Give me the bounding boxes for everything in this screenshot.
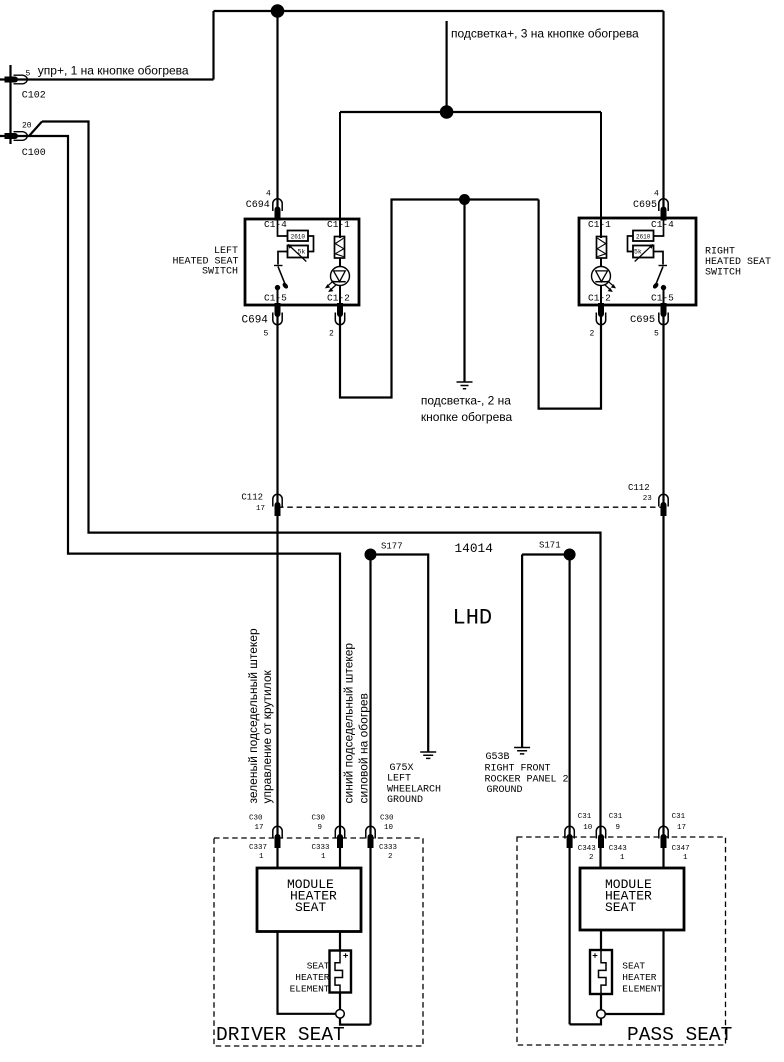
- svg-text:PASS SEAT: PASS SEAT: [627, 1024, 732, 1046]
- svg-text:LHD: LHD: [453, 606, 493, 631]
- wire green control run: [42, 122, 601, 869]
- connector C112 pin 17: [273, 494, 282, 516]
- node illumination ground junction: [459, 194, 470, 205]
- svg-text:C30: C30: [312, 815, 326, 823]
- svg-text:ROCKER PANEL 2: ROCKER PANEL 2: [485, 774, 569, 785]
- wire pass seat element return: [570, 1018, 601, 1024]
- svg-text:C343: C343: [609, 845, 628, 853]
- svg-text:подсветка+, 3 на кнопке обогре: подсветка+, 3 на кнопке обогрева: [451, 27, 639, 41]
- svg-text:4: 4: [654, 190, 659, 199]
- wire top horizontal bus: [214, 10, 664, 12]
- right heated seat switch box U2: [579, 218, 696, 305]
- ground G75X: [420, 752, 436, 758]
- switch blade tip: [281, 282, 289, 290]
- wire left switch output C1-5 down to driver module: [276, 305, 278, 868]
- connector C30 pin 17 / C337 pin 1: [273, 826, 282, 848]
- svg-text:S171: S171: [539, 541, 561, 551]
- svg-text:C1-5: C1-5: [651, 292, 674, 303]
- connector C112 pin 23: [659, 494, 668, 516]
- svg-text:5: 5: [654, 330, 659, 339]
- svg-text:GROUND: GROUND: [387, 795, 423, 806]
- wire harness stub at C102/C100: [9, 65, 11, 144]
- ground illumination (button backlight): [457, 382, 473, 389]
- svg-text:C694: C694: [242, 315, 269, 327]
- resistor 2610: [288, 231, 309, 242]
- svg-text:G75X: G75X: [390, 763, 414, 774]
- svg-text:C1-4: C1-4: [651, 219, 674, 230]
- svg-text:ELEMENT: ELEMENT: [290, 984, 330, 995]
- svg-text:C100: C100: [22, 148, 46, 159]
- svg-text:5: 5: [264, 330, 269, 339]
- svg-text:9: 9: [616, 824, 621, 832]
- pass module heater seat box: [580, 868, 684, 930]
- svg-text:G53B: G53B: [486, 752, 510, 763]
- wire left C1-2 to illumination ground: [340, 200, 539, 398]
- svg-text:2610: 2610: [636, 233, 651, 240]
- LED arrow 1: [328, 281, 333, 286]
- svg-text:C343: C343: [578, 845, 597, 853]
- svg-text:2: 2: [329, 330, 334, 339]
- svg-text:SEAT: SEAT: [605, 900, 636, 915]
- svg-text:C1-2: C1-2: [588, 292, 611, 303]
- svg-text:17: 17: [255, 824, 264, 832]
- wire podsvetka+ vertical: [446, 21, 448, 112]
- svg-text:5k: 5k: [298, 249, 306, 256]
- svg-text:WHEELARCH: WHEELARCH: [387, 784, 441, 795]
- LED cathode bar: [333, 281, 345, 283]
- svg-text:5k: 5k: [634, 249, 642, 256]
- svg-text:зеленый подседельный штекер: зеленый подседельный штекер: [246, 628, 260, 803]
- wire C100 pin20 diagonal: [29, 122, 42, 137]
- svg-text:RIGHT FRONT: RIGHT FRONT: [485, 764, 551, 775]
- resistor 5k variable: [288, 246, 309, 258]
- connector C695 pin 5: [659, 303, 668, 325]
- svg-text:1: 1: [620, 854, 625, 862]
- svg-text:1: 1: [683, 854, 688, 862]
- svg-text:C1-1: C1-1: [588, 219, 611, 230]
- svg-text:SWITCH: SWITCH: [705, 268, 741, 279]
- connector C694 pin 4: [273, 199, 282, 221]
- svg-text:HEATER: HEATER: [622, 972, 657, 983]
- wire pass module to heater element: [600, 930, 602, 1010]
- wire contact to C1-5: [277, 288, 279, 305]
- wire driver module left pin to seat joint: [278, 932, 336, 1014]
- switch fixed contact: [275, 285, 280, 290]
- svg-text:подсветка-, 2 на: подсветка-, 2 на: [421, 394, 511, 408]
- right switch internals (mirrored): [592, 112, 668, 305]
- wire coil to LED: [339, 258, 341, 267]
- left heated seat switch box U1: [245, 219, 359, 305]
- svg-text:2: 2: [589, 854, 594, 862]
- svg-text:1: 1: [321, 853, 326, 861]
- svg-text:C1-4: C1-4: [264, 219, 287, 230]
- wire upr+ from C102: [0, 78, 214, 80]
- pass seat heater element: [590, 950, 612, 994]
- driver seat joint circle: [336, 1010, 345, 1019]
- connector right switch pin 2: [596, 303, 605, 325]
- svg-text:23: 23: [643, 495, 653, 503]
- wire left drop from top bus: [212, 11, 214, 80]
- svg-text:5: 5: [26, 70, 31, 79]
- left switch internals: [274, 112, 350, 305]
- driver seat dashed enclosure: [214, 838, 423, 1046]
- wire S177 to ground G75X: [371, 555, 429, 753]
- svg-text:DRIVER SEAT: DRIVER SEAT: [216, 1024, 345, 1046]
- wire illumination ground drop: [463, 200, 465, 383]
- svg-text:C102: C102: [22, 91, 46, 102]
- connector C31 pin 17 / C347 pin 1: [659, 826, 668, 848]
- svg-text:C30: C30: [380, 815, 394, 823]
- wire S171 power drop to pass seat: [568, 555, 570, 1025]
- svg-text:управление от крутилок: управление от крутилок: [260, 670, 274, 804]
- connector C31 pin 10 / C343 pin 2: [565, 826, 574, 848]
- lamp coil body: [335, 237, 345, 259]
- svg-text:C333: C333: [312, 844, 331, 852]
- wire illumination bus C1-1 to C1-1: [340, 111, 601, 113]
- svg-text:S177: S177: [381, 542, 403, 552]
- node podsvetka+ junction: [440, 105, 454, 119]
- connector C31 pin 9 / C343 pin 1: [596, 826, 605, 848]
- wire S177 power drop to driver seat: [369, 555, 371, 1025]
- svg-text:C30: C30: [249, 815, 263, 823]
- svg-text:кнопке обогрева: кнопке обогрева: [421, 410, 513, 424]
- svg-text:2610: 2610: [291, 233, 306, 240]
- svg-text:9: 9: [318, 824, 323, 832]
- svg-text:10: 10: [583, 824, 593, 832]
- svg-text:C347: C347: [672, 845, 690, 853]
- pass seat dashed enclosure: [517, 837, 726, 1045]
- connector C30 pin 10 / C333 pin 2: [366, 826, 375, 848]
- svg-text:14014: 14014: [455, 541, 494, 556]
- svg-text:синий подседельный штекер: синий подседельный штекер: [342, 643, 356, 804]
- pass seat joint circle: [597, 1010, 606, 1019]
- wire right switch C1-4 drop: [662, 11, 664, 218]
- svg-text:HEATER: HEATER: [295, 972, 330, 983]
- dashed bulkhead line C112: [278, 506, 664, 508]
- svg-text:20: 20: [22, 122, 32, 131]
- wire driver seat element return: [340, 1018, 371, 1025]
- connector C100: [5, 132, 28, 141]
- switch blade: [278, 267, 285, 285]
- wire S171 to ground G53B: [522, 555, 570, 748]
- svg-text:4: 4: [266, 190, 271, 199]
- node S171 splice: [564, 549, 576, 561]
- svg-text:C1-1: C1-1: [327, 219, 350, 230]
- wire 2610 to 5k: [308, 236, 314, 252]
- svg-text:ELEMENT: ELEMENT: [622, 984, 662, 995]
- svg-text:C333: C333: [379, 844, 398, 852]
- svg-text:C695: C695: [633, 200, 657, 211]
- wire C1-4 to resistor 2610: [278, 219, 288, 236]
- wire driver module to heater element: [339, 932, 341, 1010]
- driver module heater seat box: [257, 868, 361, 932]
- svg-text:C112: C112: [628, 483, 650, 493]
- svg-text:1: 1: [259, 853, 264, 861]
- svg-text:SWITCH: SWITCH: [202, 267, 238, 278]
- svg-text:10: 10: [384, 824, 394, 832]
- wire left switch C1-4 drop: [276, 11, 278, 219]
- svg-text:C1-2: C1-2: [327, 292, 350, 303]
- arrow of variable resistor: [291, 247, 307, 262]
- connector left switch pin 2: [335, 303, 344, 325]
- svg-text:C695: C695: [630, 314, 655, 326]
- svg-text:17: 17: [256, 505, 265, 513]
- svg-text:C1-5: C1-5: [264, 292, 287, 303]
- svg-text:17: 17: [677, 824, 686, 832]
- svg-text:C337: C337: [249, 844, 267, 852]
- connector C102: [5, 75, 28, 84]
- LED arrow 2: [332, 284, 337, 289]
- svg-text:HEATED SEAT: HEATED SEAT: [705, 257, 771, 268]
- wire blue power run: [0, 136, 340, 868]
- svg-text:C31: C31: [609, 813, 623, 821]
- node S177 splice: [365, 549, 377, 561]
- connector C30 pin 9 / C333 pin 1: [335, 826, 344, 848]
- svg-text:2: 2: [388, 853, 393, 861]
- node top junction: [271, 4, 285, 18]
- svg-text:C31: C31: [578, 813, 592, 821]
- svg-text:2: 2: [590, 330, 595, 339]
- svg-text:упр+, 1 на кнопке обогрева: упр+, 1 на кнопке обогрева: [38, 64, 189, 78]
- svg-text:C694: C694: [246, 200, 270, 211]
- wire LED to C1-2: [339, 285, 341, 305]
- wire right switch output C1-5 down to pass module: [662, 305, 664, 868]
- svg-text:SEAT: SEAT: [295, 900, 326, 915]
- ground G53B: [514, 748, 530, 754]
- svg-text:GROUND: GROUND: [487, 785, 523, 796]
- LED triangle: [334, 271, 346, 282]
- LED circle: [331, 267, 350, 286]
- svg-text:C31: C31: [672, 813, 686, 821]
- wire pass module right pin to seat joint: [605, 930, 663, 1014]
- connector C695 pin 4: [659, 199, 668, 221]
- svg-text:RIGHT: RIGHT: [705, 247, 735, 258]
- wire C1-1 into coil: [339, 112, 341, 238]
- svg-text:SEAT: SEAT: [307, 961, 330, 972]
- svg-text:LEFT: LEFT: [387, 774, 411, 785]
- driver seat heater element: [330, 951, 352, 993]
- svg-text:C112: C112: [241, 492, 263, 502]
- svg-text:силовой на обогрев: силовой на обогрев: [357, 693, 371, 803]
- svg-text:HEATED SEAT: HEATED SEAT: [172, 256, 238, 267]
- switch pivot tick: [274, 265, 283, 267]
- svg-text:SEAT: SEAT: [622, 961, 645, 972]
- connector C694 pin 5: [273, 303, 282, 325]
- wire 5k to switch pivot: [278, 252, 288, 265]
- wire right C1-2 to illumination ground: [539, 200, 601, 409]
